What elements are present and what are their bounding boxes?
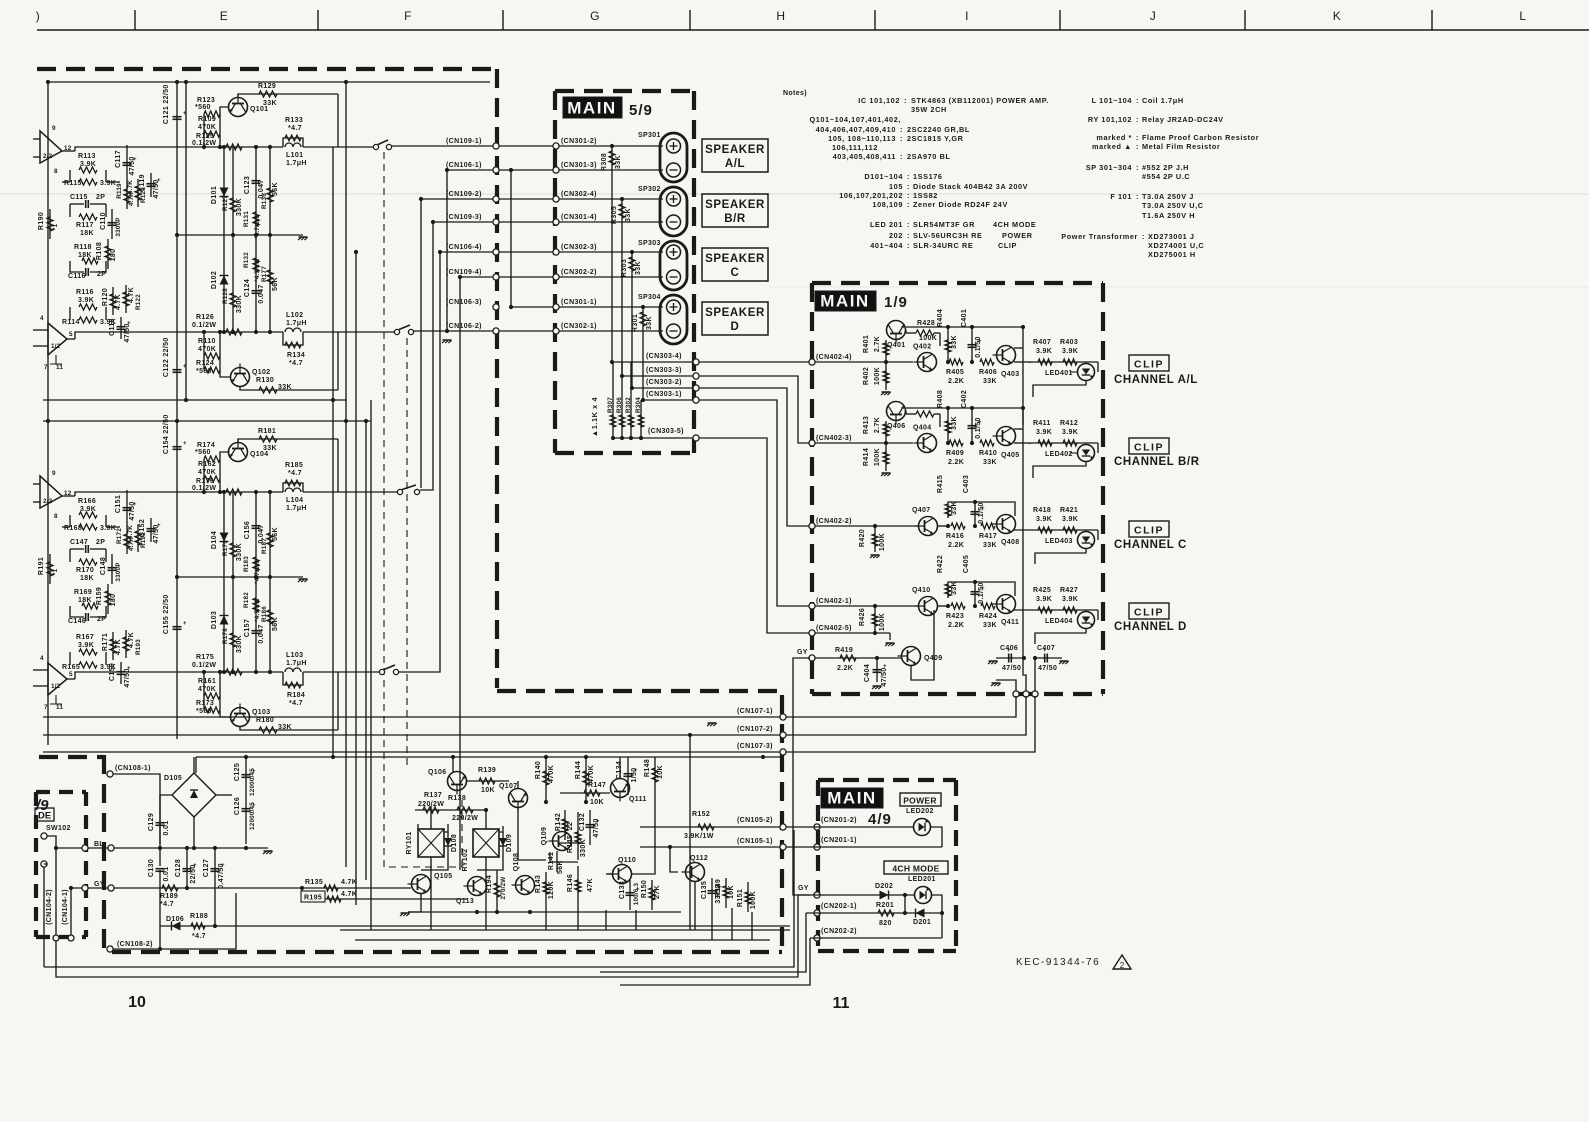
svg-text:Q103: Q103 xyxy=(252,709,271,716)
svg-text:820: 820 xyxy=(879,920,892,927)
svg-text:Coil 1.7μH: Coil 1.7μH xyxy=(1142,96,1184,105)
label box SPEAKER D xyxy=(702,302,768,335)
resistor R406 33K xyxy=(980,359,994,365)
bottom section dashed border right edge xyxy=(780,695,784,952)
resistor R428b 100K xyxy=(916,411,934,417)
svg-text:D102: D102 xyxy=(211,271,218,289)
wire cn108-2 xyxy=(113,893,236,949)
resistor R168 3.9K xyxy=(79,524,97,530)
diode D109 xyxy=(502,832,504,854)
svg-text:R425: R425 xyxy=(1033,587,1051,594)
svg-text:4.7K: 4.7K xyxy=(115,639,122,655)
svg-text:SLR54MT3F GR: SLR54MT3F GR xyxy=(913,220,975,229)
svg-text:BL: BL xyxy=(94,841,104,848)
svg-text:(CN402-5): (CN402-5) xyxy=(816,625,852,632)
svg-text:J: J xyxy=(1150,9,1157,23)
svg-text:Q404: Q404 xyxy=(913,425,932,432)
revision triangle xyxy=(1113,955,1131,969)
resistor R416 2.2K xyxy=(938,525,948,527)
svg-text::: : xyxy=(1136,115,1139,124)
resistor R108 180 xyxy=(107,239,109,269)
svg-text:1.7μH: 1.7μH xyxy=(286,160,307,167)
capacitor C134 1/50 xyxy=(627,757,629,795)
resistor R127 330K xyxy=(232,147,234,235)
svg-text:R306: R306 xyxy=(616,397,623,413)
svg-text:C154: C154 xyxy=(163,436,170,454)
svg-text:R137: R137 xyxy=(424,792,442,799)
wire top rail xyxy=(195,757,197,773)
svg-text:*560: *560 xyxy=(195,104,211,111)
transistor Q111 xyxy=(611,779,630,802)
svg-text:180: 180 xyxy=(110,249,117,262)
diode D102 xyxy=(220,276,229,285)
ground xyxy=(889,633,891,640)
svg-text:100/6.3: 100/6.3 xyxy=(633,883,640,906)
wire bridge bottom xyxy=(193,817,195,848)
ground xyxy=(408,894,421,913)
svg-text:R128: R128 xyxy=(222,288,229,304)
resistor R190 *1 xyxy=(49,209,51,239)
svg-text:(CN105-2): (CN105-2) xyxy=(737,817,773,824)
svg-text:R187: R187 xyxy=(261,538,268,554)
wire speaker row (CN302-3) xyxy=(440,251,663,253)
node (CN402-5) xyxy=(809,630,815,636)
svg-text:(CN109-1): (CN109-1) xyxy=(446,138,482,145)
svg-text:47/50: 47/50 xyxy=(1038,665,1057,672)
svg-text:R182: R182 xyxy=(243,592,250,608)
svg-text:2: 2 xyxy=(1120,961,1125,970)
svg-text:R307: R307 xyxy=(607,397,614,413)
svg-text:18K: 18K xyxy=(78,252,92,259)
svg-text:0.1/2W: 0.1/2W xyxy=(192,662,216,669)
svg-text::: : xyxy=(900,125,903,134)
svg-text:R123: R123 xyxy=(197,97,215,104)
svg-text::: : xyxy=(907,172,910,181)
svg-text:0.1/2W: 0.1/2W xyxy=(192,140,216,147)
svg-text:35W 2CH: 35W 2CH xyxy=(911,105,947,114)
svg-text:C121: C121 xyxy=(163,106,170,124)
label box CLIP CHANNEL B/R xyxy=(1129,438,1169,454)
wire d202 junction xyxy=(904,895,906,913)
svg-text:470K: 470K xyxy=(198,469,216,476)
svg-text:11: 11 xyxy=(833,995,850,1012)
svg-text:(CN301-4): (CN301-4) xyxy=(561,214,597,221)
svg-text:R174: R174 xyxy=(197,442,215,449)
svg-text:R417: R417 xyxy=(979,533,997,540)
svg-text:SPEAKER: SPEAKER xyxy=(705,307,765,319)
wire route v421 xyxy=(420,199,422,488)
resistor R188 *4.7 xyxy=(191,923,205,929)
svg-text:2.7K: 2.7K xyxy=(874,336,881,352)
resistor R159 180 xyxy=(107,584,109,614)
svg-text:47/50: 47/50 xyxy=(593,818,600,837)
svg-text:R143: R143 xyxy=(535,875,542,893)
resistor R177 56K xyxy=(269,235,271,332)
wire input row xyxy=(815,605,918,607)
wire sw102 b xyxy=(44,863,47,865)
svg-text:(CN106-1): (CN106-1) xyxy=(446,162,482,169)
svg-text:R410: R410 xyxy=(979,450,997,457)
svg-text:R122: R122 xyxy=(135,294,142,310)
wire speaker row (CN302-2) xyxy=(460,276,663,278)
svg-text:H: H xyxy=(776,9,785,23)
svg-text:(CN303-2): (CN303-2) xyxy=(646,379,682,386)
svg-text:D: D xyxy=(731,321,740,333)
resistor R411 3.9K xyxy=(1038,440,1052,446)
resistor R178 330K xyxy=(232,577,234,672)
svg-text:4: 4 xyxy=(40,315,44,322)
svg-text:R165: R165 xyxy=(62,664,80,671)
svg-text:33K: 33K xyxy=(951,581,958,595)
resistor R426 100K vertical xyxy=(874,606,876,633)
svg-text:22/50: 22/50 xyxy=(163,84,170,103)
node (CN402-1) xyxy=(809,603,815,609)
wire cn201-1 row xyxy=(786,846,942,848)
svg-text:R129: R129 xyxy=(258,83,276,90)
svg-text:(CN109-2): (CN109-2) xyxy=(446,191,482,198)
svg-text:3.9K: 3.9K xyxy=(1062,429,1078,436)
wire cn202-1 row xyxy=(806,912,942,914)
svg-text:33K: 33K xyxy=(263,100,277,107)
svg-text:G: G xyxy=(590,9,600,23)
svg-text:R125: R125 xyxy=(196,133,214,140)
node (CN402-2) xyxy=(809,523,815,529)
svg-text:): ) xyxy=(36,9,41,23)
svg-text:(CN108-1): (CN108-1) xyxy=(115,765,151,772)
svg-text:C405: C405 xyxy=(963,555,970,573)
wire cn201-2 row xyxy=(786,826,913,828)
svg-text:marked *: marked * xyxy=(1096,133,1132,142)
svg-text:R407: R407 xyxy=(1033,339,1051,346)
svg-text:POWER: POWER xyxy=(1002,231,1033,240)
svg-text:C125: C125 xyxy=(234,763,241,781)
svg-text:401~404: 401~404 xyxy=(870,241,903,250)
svg-text:R109: R109 xyxy=(198,116,216,123)
svg-text::: : xyxy=(1142,232,1145,241)
MAIN 4/9 dashed border xyxy=(818,780,956,951)
svg-text:C155: C155 xyxy=(163,616,170,634)
svg-text:R116: R116 xyxy=(76,289,94,296)
svg-text:C122: C122 xyxy=(163,359,170,377)
svg-text:R146: R146 xyxy=(567,874,574,892)
label box CLIP CHANNEL D xyxy=(1129,603,1169,619)
svg-text:R416: R416 xyxy=(946,533,964,540)
svg-text:LED403: LED403 xyxy=(1045,538,1073,545)
ground xyxy=(1060,660,1069,662)
svg-text:(CN301-2): (CN301-2) xyxy=(561,138,597,145)
wire top loop xyxy=(948,582,1015,598)
wire route v511 xyxy=(510,170,512,307)
svg-text:R178: R178 xyxy=(222,628,229,644)
resistor R121 4.7K xyxy=(137,179,139,207)
svg-text:(CN106-2): (CN106-2) xyxy=(446,323,482,330)
svg-text:C148: C148 xyxy=(100,557,107,575)
MAIN 5/9 dashed border xyxy=(555,91,694,453)
svg-text:C126: C126 xyxy=(234,797,241,815)
wire bus v48 xyxy=(47,82,49,745)
LED LED403 xyxy=(1097,530,1099,540)
svg-text:C156: C156 xyxy=(244,521,251,539)
svg-text:R119: R119 xyxy=(116,183,123,199)
svg-text:3.9K: 3.9K xyxy=(1062,516,1078,523)
svg-text::: : xyxy=(907,182,910,191)
svg-text:56K: 56K xyxy=(272,182,279,196)
svg-text:10K: 10K xyxy=(728,885,735,899)
svg-text:2P: 2P xyxy=(96,539,105,546)
ruler tick 3 xyxy=(502,10,504,30)
svg-text:*4.7: *4.7 xyxy=(192,933,206,940)
svg-text:C151: C151 xyxy=(115,495,122,513)
wire bus v371 xyxy=(370,400,372,930)
diode D103 xyxy=(220,616,229,625)
svg-text:R403: R403 xyxy=(1060,339,1078,346)
svg-text:C124: C124 xyxy=(244,279,251,297)
svg-text:0.1/2W: 0.1/2W xyxy=(192,322,216,329)
svg-text:R147: R147 xyxy=(588,782,606,789)
ground xyxy=(708,722,717,724)
svg-text:(CN302-4): (CN302-4) xyxy=(561,191,597,198)
resistor R179 330K xyxy=(232,492,234,577)
wire ground rail xyxy=(177,234,303,236)
ground xyxy=(989,660,998,662)
svg-text:+: + xyxy=(183,441,187,447)
LED LED402 xyxy=(1097,443,1099,453)
svg-text:R169: R169 xyxy=(74,589,92,596)
svg-text::: : xyxy=(907,200,910,209)
capacitor C150 47/50 xyxy=(120,662,122,684)
svg-text:100K: 100K xyxy=(874,448,881,466)
transistor Q113 xyxy=(464,877,487,896)
svg-text:*4.7: *4.7 xyxy=(160,901,174,908)
svg-text:R188: R188 xyxy=(190,913,208,920)
svg-text:4.7K: 4.7K xyxy=(128,287,135,303)
svg-text:R159: R159 xyxy=(96,587,103,605)
svg-text:(CN104-2): (CN104-2) xyxy=(46,889,53,925)
resistor R410 33K xyxy=(980,440,994,446)
resistor R122 4.7K xyxy=(125,285,127,313)
svg-text:CLIP: CLIP xyxy=(998,241,1017,250)
resistor R142 22 xyxy=(564,810,566,840)
svg-text:56K: 56K xyxy=(272,617,279,631)
wire top rail upper xyxy=(50,81,490,83)
svg-text:R191: R191 xyxy=(38,557,45,575)
svg-text:33K: 33K xyxy=(635,261,642,275)
svg-text:*1: *1 xyxy=(52,224,59,231)
wire emitter row xyxy=(1014,442,1030,444)
svg-text:4.7K: 4.7K xyxy=(128,632,135,648)
MAIN 1/9 dashed border xyxy=(812,283,1103,694)
wire bottom bus 1 xyxy=(44,830,794,967)
svg-text:*4.7/1W: *4.7/1W xyxy=(254,258,261,282)
left amp section dashed border right xyxy=(495,69,499,688)
op-amp IC102 section b xyxy=(48,663,67,695)
transistor Q103 xyxy=(231,704,250,727)
resistor R114 3.9K xyxy=(79,317,97,323)
transistor Q407 xyxy=(915,517,938,536)
capacitor C403 0.1/50 xyxy=(974,502,976,526)
svg-text:R183: R183 xyxy=(243,556,250,572)
svg-text:4CH MODE: 4CH MODE xyxy=(993,220,1036,229)
transistor Q403 xyxy=(993,346,1016,365)
svg-text:22/50: 22/50 xyxy=(163,594,170,613)
svg-text:CLIP: CLIP xyxy=(1134,525,1164,537)
LED LED401 xyxy=(1097,362,1099,372)
svg-text:1/9: 1/9 xyxy=(884,294,908,311)
svg-text:108,109: 108,109 xyxy=(872,200,903,209)
svg-text:4/9: 4/9 xyxy=(868,811,892,828)
ground xyxy=(882,472,891,474)
resistor R415 33K xyxy=(945,504,951,516)
wire led cathode xyxy=(1035,629,1086,645)
resistor R141 56K xyxy=(556,851,558,872)
wire bridge top xyxy=(193,757,195,773)
wire relay contact drops xyxy=(421,869,431,871)
wire relay tops xyxy=(417,824,419,829)
svg-text:100K: 100K xyxy=(879,533,886,551)
svg-text:+: + xyxy=(183,621,187,627)
svg-text:R408: R408 xyxy=(937,390,944,408)
ground xyxy=(882,391,891,393)
resistor R421 3.9K xyxy=(1063,527,1077,533)
resistor R427 3.9K xyxy=(1063,607,1077,613)
svg-text:(CN303-4): (CN303-4) xyxy=(646,353,682,360)
svg-text:2SC2240 GR,BL: 2SC2240 GR,BL xyxy=(907,125,970,134)
MAIN 4/9 label xyxy=(821,788,883,808)
svg-text:R148: R148 xyxy=(644,759,651,777)
svg-text:C152: C152 xyxy=(139,519,146,537)
wire input row xyxy=(815,361,913,363)
svg-text:2.7K: 2.7K xyxy=(874,417,881,433)
svg-text:1.7μH: 1.7μH xyxy=(286,320,307,327)
svg-text:4.7K: 4.7K xyxy=(127,525,134,539)
wire cn108-1 xyxy=(113,774,160,790)
switch row 2 xyxy=(394,329,399,334)
svg-text:L101: L101 xyxy=(286,152,303,159)
wire route v440 xyxy=(399,252,440,672)
ground xyxy=(264,850,273,852)
ruler tick 8 xyxy=(1431,10,1433,30)
svg-text:47/50: 47/50 xyxy=(124,323,131,342)
svg-text:R424: R424 xyxy=(979,613,997,620)
wire q107 emitter xyxy=(518,808,546,860)
svg-text:Q112: Q112 xyxy=(690,855,708,862)
svg-text:D109: D109 xyxy=(506,834,513,852)
wire q112 base xyxy=(670,847,678,872)
svg-text:3.9K: 3.9K xyxy=(80,506,96,513)
MAIN 1/9 label xyxy=(815,291,876,311)
svg-text:STK4863 (XB112001) POWER AMP.: STK4863 (XB112001) POWER AMP. xyxy=(911,96,1049,105)
svg-text:Q406: Q406 xyxy=(887,423,906,430)
svg-text:220/2W: 220/2W xyxy=(452,815,478,822)
bottom section dashed border left edge xyxy=(102,755,106,952)
svg-text:0.1/2W: 0.1/2W xyxy=(192,485,216,492)
svg-text:R414: R414 xyxy=(863,448,870,466)
svg-text:Q104: Q104 xyxy=(250,451,269,458)
svg-text:33K: 33K xyxy=(951,335,958,349)
svg-text:33K: 33K xyxy=(615,155,622,169)
svg-text:Q403: Q403 xyxy=(1001,371,1020,378)
svg-text:C128: C128 xyxy=(175,859,182,877)
svg-text:1/2: 1/2 xyxy=(51,683,61,690)
svg-text:2.2K: 2.2K xyxy=(948,378,964,385)
wire q110 q109 links xyxy=(559,842,578,844)
svg-text:106,111,112: 106,111,112 xyxy=(832,143,878,152)
resistor R171 4.7K xyxy=(112,632,114,660)
svg-text:R132: R132 xyxy=(243,252,250,268)
wire bridge right xyxy=(216,794,232,796)
svg-text:3.9K: 3.9K xyxy=(80,161,96,168)
capacitor C402 0.1/50 xyxy=(971,408,973,443)
svg-text:R141: R141 xyxy=(548,852,555,870)
svg-text:C115: C115 xyxy=(70,194,88,201)
svg-text:T3.0A 250V J: T3.0A 250V J xyxy=(1142,192,1194,201)
wire bus v186 xyxy=(185,82,187,400)
wire emitter row xyxy=(1014,529,1098,531)
svg-text:C401: C401 xyxy=(961,309,968,327)
svg-text:R130: R130 xyxy=(256,377,274,384)
capacitor C125 12000/45 xyxy=(245,757,247,844)
svg-text:R194: R194 xyxy=(486,875,493,893)
svg-text:R175: R175 xyxy=(196,654,214,661)
svg-text:RY 101,102: RY 101,102 xyxy=(1088,115,1132,124)
svg-text:SP302: SP302 xyxy=(638,186,661,193)
svg-text:R117: R117 xyxy=(76,222,94,229)
resistor R143 120K xyxy=(545,872,547,905)
svg-text:R409: R409 xyxy=(946,450,964,457)
capacitor C156 0.047 xyxy=(255,492,257,577)
svg-text:C402: C402 xyxy=(961,390,968,408)
svg-text:Metal Film Resistor: Metal Film Resistor xyxy=(1142,142,1220,151)
label box SPEAKER B/R xyxy=(702,194,768,227)
svg-text:Q409: Q409 xyxy=(924,655,943,662)
wire (CN107-2) xyxy=(43,734,780,736)
wire input row xyxy=(815,525,918,527)
svg-text:1.7μH: 1.7μH xyxy=(286,660,307,667)
svg-text:33K: 33K xyxy=(263,445,277,452)
svg-text:(CN109-4): (CN109-4) xyxy=(446,269,482,276)
transistor Q106 xyxy=(448,772,467,795)
svg-text:(CN106-3): (CN106-3) xyxy=(446,299,482,306)
svg-text:Q105: Q105 xyxy=(434,873,453,880)
svg-text:R139: R139 xyxy=(478,767,496,774)
svg-text:47/50: 47/50 xyxy=(129,156,136,175)
wire output row 2 xyxy=(67,338,75,340)
svg-text:Relay JR2AD-DC24V: Relay JR2AD-DC24V xyxy=(1142,115,1224,124)
svg-text:R180: R180 xyxy=(256,717,274,724)
wire led cathode xyxy=(1033,462,1086,479)
resistor R425 3.9K xyxy=(1038,607,1052,613)
label box POWER xyxy=(900,793,941,806)
svg-text:C135: C135 xyxy=(701,881,708,899)
svg-text:47/50: 47/50 xyxy=(881,667,888,686)
svg-text:Q107: Q107 xyxy=(499,783,518,790)
svg-text:Q411: Q411 xyxy=(1001,619,1019,626)
svg-text:5: 5 xyxy=(69,331,73,338)
wire clip bus 2 xyxy=(1034,658,1036,694)
svg-text:(CN107-2): (CN107-2) xyxy=(737,726,773,733)
svg-text:202: 202 xyxy=(889,231,903,240)
svg-text:(CN302-2): (CN302-2) xyxy=(561,269,597,276)
capacitor C148 3300P xyxy=(111,554,113,584)
resistor R405 2.2K xyxy=(949,359,963,365)
capacitor C117 47/50 xyxy=(126,145,128,183)
svg-text:CHANNEL D: CHANNEL D xyxy=(1114,621,1187,633)
transistor Q107 xyxy=(509,789,528,812)
svg-text:120K: 120K xyxy=(548,881,555,899)
svg-text:470K: 470K xyxy=(198,346,216,353)
resistor R149 10K xyxy=(725,878,727,908)
wire emitter row xyxy=(1014,361,1030,363)
